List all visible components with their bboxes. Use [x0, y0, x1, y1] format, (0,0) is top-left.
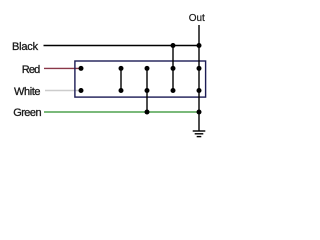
svg-text:Red: Red	[22, 64, 40, 76]
node white-173	[171, 88, 176, 93]
wire red horizontal	[44, 67, 81, 69]
node white-199	[197, 88, 202, 93]
connector box	[75, 61, 206, 97]
svg-text:Green: Green	[13, 107, 41, 119]
node white-147	[145, 88, 150, 93]
node white-121	[119, 88, 124, 93]
wire vertical column x=173 (up to black)	[172, 46, 174, 91]
node black-199	[197, 43, 202, 48]
wire black horizontal	[44, 45, 201, 47]
ground	[193, 131, 206, 137]
node green-199	[197, 110, 202, 115]
wire vertical column x=147 (down to green)	[146, 68, 148, 112]
svg-text:Out: Out	[189, 13, 205, 24]
node black-173	[171, 43, 176, 48]
wire vertical Out column x=199	[198, 25, 200, 131]
svg-text:Black: Black	[12, 41, 39, 53]
node red-173	[171, 66, 176, 71]
wire green horizontal	[44, 111, 199, 113]
svg-text:White: White	[14, 86, 40, 98]
node red-81	[79, 66, 84, 71]
wire white horizontal	[45, 90, 81, 92]
node white-81	[79, 88, 84, 93]
node red-121	[119, 66, 124, 71]
node red-199	[197, 66, 202, 71]
wire vertical column x=121	[120, 68, 122, 90]
node red-147	[145, 66, 150, 71]
node green-147	[145, 110, 150, 115]
